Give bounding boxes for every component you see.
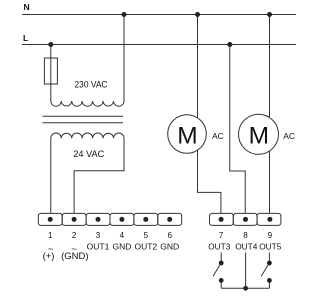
junction dot N-M1 — [195, 12, 200, 17]
wire switch common rail — [221, 287, 269, 289]
svg-text:OUT4: OUT4 — [235, 242, 258, 252]
wire primary to N rail — [123, 15, 125, 102]
terminal dot 3 — [96, 217, 101, 222]
switch S2 upper contact dot — [267, 261, 272, 266]
switch S1 lower contact dot — [219, 278, 224, 283]
junction dot L-fuse — [48, 42, 53, 47]
junction dot common rail — [243, 286, 248, 291]
svg-text:230 VAC: 230 VAC — [75, 80, 109, 90]
wire motor M2 to terminal 9 — [269, 151, 271, 214]
switch S2 lever — [261, 265, 268, 276]
wire switch S2 to common rail — [268, 281, 270, 289]
junction dot L-terminal8 — [227, 42, 232, 47]
motor M2 circle — [239, 114, 279, 154]
terminal dot 9 — [267, 217, 272, 222]
svg-text:M: M — [177, 122, 197, 149]
wire terminal 9 to switch S2 — [268, 253, 270, 263]
svg-text:GND: GND — [112, 242, 131, 252]
svg-text:1: 1 — [48, 231, 53, 240]
wire L rail — [22, 44, 296, 46]
transformer T1 primary winding — [51, 101, 124, 106]
wire switch S1 to common rail — [220, 281, 222, 289]
wire N rail to motor M1 — [197, 15, 199, 118]
switch S2 lower contact dot — [267, 278, 272, 283]
junction dot N-M2 — [267, 12, 272, 17]
svg-text:(+): (+) — [43, 251, 55, 262]
svg-text:L: L — [23, 33, 28, 43]
svg-text:2: 2 — [72, 231, 77, 240]
svg-text:3: 3 — [96, 231, 101, 240]
svg-text:OUT3: OUT3 — [208, 242, 231, 252]
svg-text:OUT5: OUT5 — [259, 242, 282, 252]
wire N rail to motor M2 — [269, 15, 271, 118]
terminal block TB1 cells 1-6 — [38, 213, 62, 225]
svg-text:7: 7 — [219, 231, 224, 240]
svg-text:GND: GND — [160, 242, 179, 252]
svg-text:6: 6 — [167, 231, 172, 240]
svg-text:5: 5 — [144, 231, 149, 240]
wire secondary left to terminal 1 — [50, 138, 52, 213]
terminal block TB2 cells 7-9 — [210, 213, 234, 225]
terminal dot 4 — [119, 217, 124, 222]
svg-text:8: 8 — [243, 231, 248, 240]
transformer T1 core — [43, 115, 124, 117]
svg-text:OUT2: OUT2 — [134, 242, 157, 252]
terminal dot 7 — [219, 217, 224, 222]
terminal dot 8 — [243, 217, 248, 222]
svg-text:4: 4 — [120, 231, 125, 240]
svg-text:9: 9 — [268, 231, 273, 240]
wire secondary right to terminal 2 — [74, 138, 124, 213]
switch S1 upper contact dot — [219, 261, 224, 266]
wire L rail to terminal 8 — [230, 45, 245, 214]
wire terminal 8 to common rail — [245, 253, 247, 289]
wire N rail — [22, 14, 296, 16]
svg-text:(GND): (GND) — [61, 251, 88, 262]
svg-text:M: M — [249, 122, 269, 149]
svg-text:AC: AC — [212, 131, 224, 141]
wire motor M1 to terminal 7 — [198, 150, 221, 213]
wire fuse branch from L — [50, 45, 52, 102]
switch S1 lever — [213, 265, 220, 276]
terminal dot 2 — [72, 217, 77, 222]
motor M1 circle — [168, 115, 207, 154]
svg-text:OUT1: OUT1 — [87, 242, 110, 252]
transformer T1 secondary winding — [51, 133, 124, 138]
terminal dot 1 — [48, 217, 53, 222]
svg-text:AC: AC — [283, 131, 295, 141]
terminal dot 5 — [143, 217, 148, 222]
svg-text:24 VAC: 24 VAC — [73, 149, 105, 159]
junction dot N-primary — [122, 12, 127, 17]
fuse F1 — [44, 58, 57, 84]
wire terminal 7 to switch S1 — [220, 253, 222, 263]
terminal dot 6 — [167, 217, 172, 222]
svg-text:N: N — [24, 2, 30, 12]
